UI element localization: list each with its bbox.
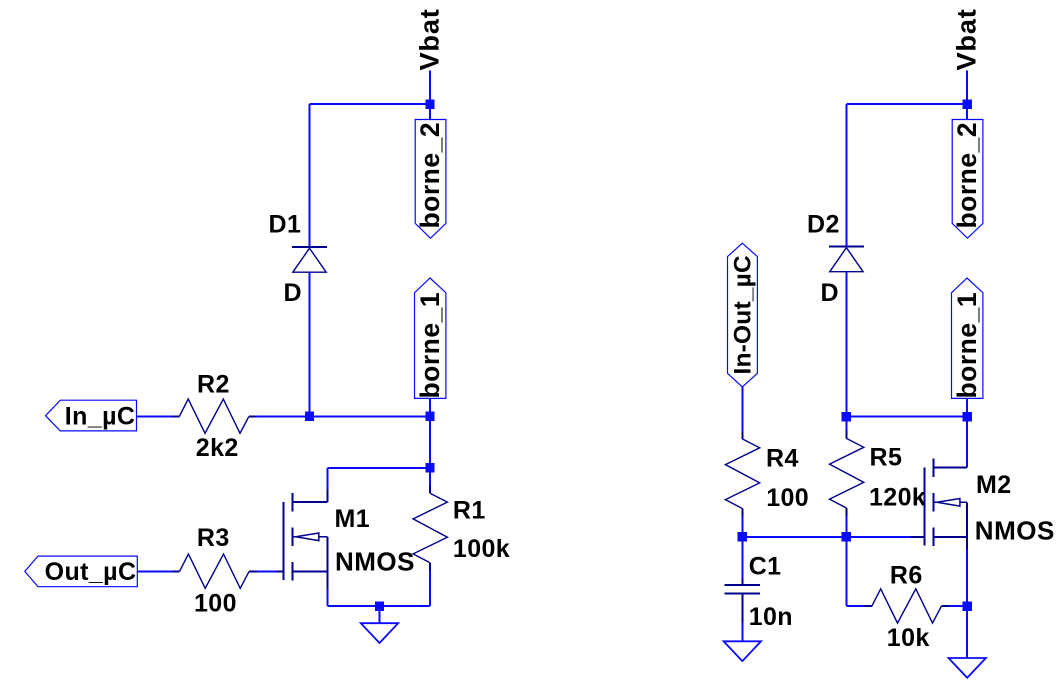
svg-text:In-Out_µC: In-Out_µC — [730, 255, 757, 374]
wire node E to node G — [742, 536, 846, 538]
wire node G to M2 gate — [846, 536, 911, 538]
capacitor C1 — [724, 584, 760, 586]
wire node A to node B — [310, 415, 431, 417]
transistor M1 — [282, 502, 284, 580]
junction Vbat node (right) — [963, 99, 972, 108]
wire R2 to node A — [257, 415, 310, 417]
resistor R3 — [172, 570, 179, 572]
ground (under C1) — [741, 594, 743, 624]
diode D2 — [829, 246, 864, 248]
wire node D to node F — [846, 416, 967, 418]
wire node C to R1 — [429, 468, 431, 486]
wire D1 anode down to node — [309, 272, 311, 416]
svg-text:borne_1: borne_1 — [952, 292, 982, 399]
junction node G — [842, 532, 851, 541]
svg-text:C1: C1 — [749, 552, 782, 580]
junction ground node (right) — [963, 602, 972, 611]
wire node E down to C1 — [741, 537, 743, 579]
wire node C to M1 drain — [328, 467, 430, 469]
wire node G down — [845, 537, 847, 606]
junction node C — [425, 463, 434, 472]
svg-text:R3: R3 — [197, 524, 230, 552]
resistor R1 — [429, 486, 431, 493]
wire R3 to M1 gate — [257, 570, 276, 572]
wire node D to R5 — [845, 417, 847, 432]
svg-text:100: 100 — [194, 590, 237, 618]
wire Vbat node down to D1 cathode — [309, 104, 311, 247]
svg-text:R2: R2 — [197, 370, 230, 398]
svg-text:10n: 10n — [749, 603, 793, 631]
port flag borne_2 (right) — [966, 109, 968, 119]
svg-text:borne_1: borne_1 — [415, 292, 445, 399]
resistor R5 — [845, 431, 847, 438]
wire to R6 — [846, 605, 864, 607]
ground (left) — [379, 606, 381, 623]
resistor R2 — [172, 415, 179, 417]
wire Out_µC flag to R3 — [137, 570, 172, 572]
svg-text:D: D — [284, 279, 302, 307]
port flag In_µC — [46, 400, 137, 431]
wire Vbat stub (left) — [429, 71, 431, 105]
svg-text:D: D — [821, 279, 839, 307]
resistor R4 — [741, 432, 743, 439]
wire R5 to node E row — [845, 516, 847, 537]
wire Vbat stub (right) — [966, 71, 968, 105]
port flag borne_2 (left) — [429, 109, 431, 119]
svg-text:borne_2: borne_2 — [952, 122, 982, 229]
junction Vbat node (left) — [425, 99, 434, 108]
wire node F down to M2 drain — [966, 417, 968, 468]
wire bottom rail (left) — [328, 605, 430, 607]
junction ground node (left) — [375, 602, 384, 611]
wire In-Out_µC flag to R4 — [741, 387, 743, 432]
wire top horizontal (right) — [846, 103, 967, 105]
wire R6 to ground node — [949, 605, 967, 607]
svg-text:M1: M1 — [335, 505, 371, 533]
svg-text:NMOS: NMOS — [975, 516, 1055, 546]
svg-text:100: 100 — [766, 484, 809, 512]
wire In_µC flag to R2 — [137, 415, 173, 417]
svg-text:R4: R4 — [766, 444, 799, 472]
svg-text:Out_µC: Out_µC — [45, 558, 137, 586]
svg-text:Vbat: Vbat — [951, 8, 982, 70]
svg-text:D1: D1 — [269, 211, 302, 239]
svg-text:D2: D2 — [807, 211, 840, 239]
resistor R6 — [865, 605, 872, 607]
port flag borne_1 (right) — [966, 398, 968, 416]
wire Vbat node down to D2 cathode — [845, 104, 847, 247]
wire node B down — [429, 416, 431, 467]
svg-text:NMOS: NMOS — [335, 547, 415, 577]
diode D1 — [292, 246, 327, 248]
svg-text:120k: 120k — [869, 484, 926, 512]
junction node A — [305, 412, 314, 421]
svg-text:R6: R6 — [890, 562, 923, 590]
svg-text:R5: R5 — [870, 444, 903, 472]
junction node D — [842, 412, 851, 421]
wire R4 to node E — [741, 516, 743, 537]
transistor M2 — [923, 468, 925, 546]
wire M1 drain drop — [327, 468, 329, 490]
junction node B — [425, 412, 434, 421]
wire D2 anode down to node D — [845, 272, 847, 417]
wire M1 source down — [327, 589, 329, 606]
wire R1 to bottom rail — [429, 571, 431, 607]
junction node F — [963, 412, 972, 421]
svg-text:M2: M2 — [976, 471, 1012, 499]
ground (right) — [966, 606, 968, 658]
port flag In-Out_µC — [728, 243, 758, 387]
svg-text:10k: 10k — [887, 624, 930, 652]
junction node E — [738, 532, 747, 541]
wire M2 source down — [966, 549, 968, 606]
svg-text:borne_2: borne_2 — [415, 122, 445, 229]
svg-text:R1: R1 — [453, 497, 486, 525]
svg-text:100k: 100k — [453, 535, 510, 563]
svg-text:Vbat: Vbat — [414, 8, 445, 70]
svg-text:In_µC: In_µC — [65, 402, 136, 430]
svg-text:2k2: 2k2 — [196, 434, 239, 462]
port flag borne_1 (left) — [429, 398, 431, 416]
wire top horizontal (left) — [310, 103, 431, 105]
port flag Out_µC — [25, 556, 138, 587]
